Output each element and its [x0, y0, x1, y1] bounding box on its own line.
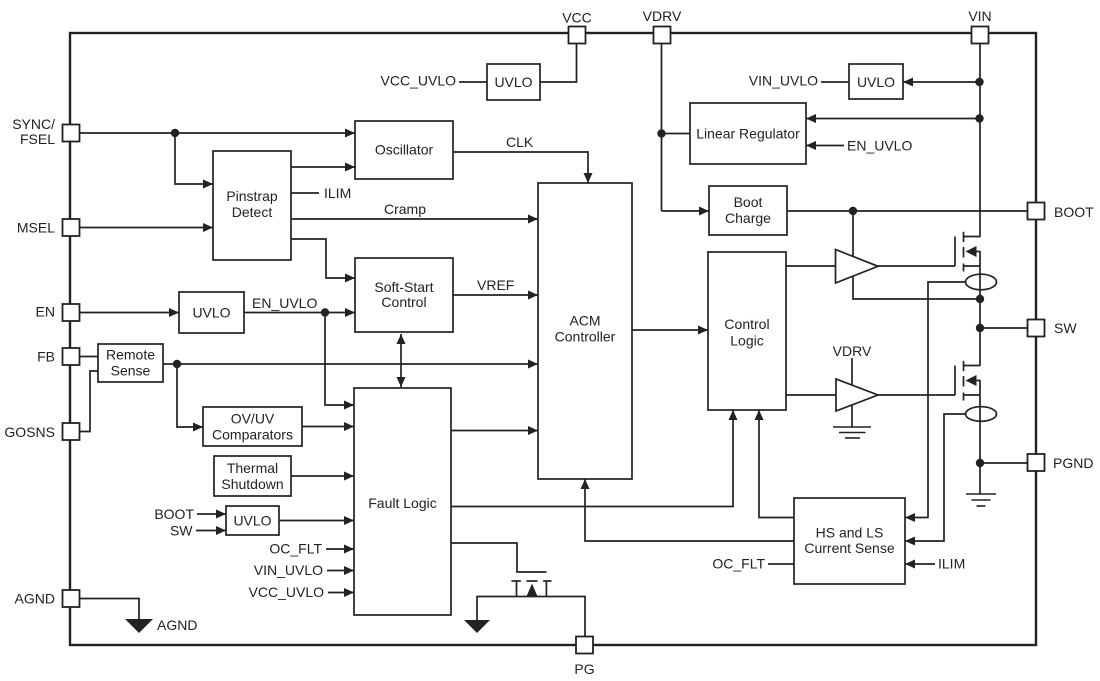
svg-text:Soft-Start: Soft-Start — [374, 279, 433, 295]
transistor Q2 source stub — [964, 394, 981, 396]
wire EN to UVLO — [80, 312, 179, 314]
pin PGND — [1028, 454, 1045, 471]
svg-text:PG: PG — [574, 661, 594, 677]
svg-text:UVLO: UVLO — [233, 513, 271, 529]
wire ILIM stub from Pinstrap Detect — [291, 192, 319, 194]
wire PG FET source rail — [477, 597, 585, 637]
wire UVLO to Fault Logic — [279, 520, 354, 522]
svg-text:Pinstrap: Pinstrap — [226, 188, 278, 204]
svg-text:VDRV: VDRV — [833, 343, 872, 359]
node PGND junction — [976, 459, 984, 467]
block Thermal Shutdown — [214, 456, 291, 496]
wire Control Logic to low-side driver — [786, 394, 836, 396]
transistor Q1 high-side FET gate bar — [954, 237, 956, 267]
svg-text:Cramp: Cramp — [384, 201, 426, 217]
block Boot Charge — [709, 186, 787, 235]
transistor Q3 PG pull-down channel segments — [511, 580, 521, 582]
transistor Q1 channel segments — [963, 232, 965, 242]
wire HS and LS Current Sense to ACM Controller bottom — [585, 479, 794, 541]
svg-text:UVLO: UVLO — [192, 305, 230, 321]
transistor Q1 source stub — [964, 265, 981, 267]
svg-text:OV/UV: OV/UV — [231, 411, 275, 427]
svg-text:HS and LS: HS and LS — [816, 525, 884, 541]
svg-text:VIN_UVLO: VIN_UVLO — [749, 73, 818, 89]
current sensor HS (ellipse) — [966, 274, 997, 290]
svg-text:BOOT: BOOT — [1054, 204, 1094, 220]
svg-text:VCC_UVLO: VCC_UVLO — [249, 584, 325, 600]
wire Pinstrap Detect to Oscillator — [291, 166, 355, 168]
wire low-side driver to FET gate — [878, 394, 955, 396]
wire VDRV pin down — [661, 44, 663, 212]
wire FB to Remote Sense — [80, 356, 98, 358]
wire SYNC/FSEL to Oscillator — [80, 132, 355, 134]
svg-text:ACM: ACM — [569, 313, 600, 329]
block Remote Sense — [98, 344, 163, 382]
pin GOSNS — [63, 423, 80, 440]
wire EN_UVLO from UVLO to Soft-Start Control — [244, 312, 355, 314]
block Oscillator — [355, 121, 453, 179]
wire AGND pin to ground — [80, 599, 139, 620]
transistor Q1 drain stub — [964, 236, 981, 238]
block Fault Logic — [354, 388, 451, 615]
transistor Q2 drain stub — [964, 365, 981, 367]
ground PGND (3-line) — [966, 493, 996, 495]
svg-text:Shutdown: Shutdown — [221, 476, 283, 492]
svg-text:SYNC/: SYNC/ — [12, 116, 55, 132]
gate driver U1 (high-side buffer) — [836, 250, 879, 284]
wire VCC_UVLO into Fault Logic — [328, 592, 354, 594]
block UVLO (EN) — [179, 292, 244, 333]
wire OC_FLT into HS and LS Current Sense — [768, 563, 794, 565]
wire bidirectional Soft-Start / Fault Logic — [400, 334, 402, 360]
wire Pinstrap Detect to Soft-Start Control — [291, 239, 355, 278]
svg-text:Thermal: Thermal — [227, 460, 278, 476]
svg-text:VIN: VIN — [968, 8, 991, 24]
svg-text:OC_FLT: OC_FLT — [712, 556, 765, 572]
svg-text:Remote: Remote — [106, 347, 155, 363]
block ACM Controller — [538, 183, 632, 479]
block OV/UV Comparators — [203, 407, 302, 446]
wire VDRV to Boot Charge — [662, 210, 710, 212]
svg-text:Boot: Boot — [734, 194, 763, 210]
svg-text:Linear Regulator: Linear Regulator — [696, 126, 800, 142]
svg-text:VREF: VREF — [477, 277, 514, 293]
pin MSEL — [63, 219, 80, 236]
node BOOT junction — [849, 207, 857, 215]
svg-text:Comparators: Comparators — [212, 427, 293, 443]
svg-text:Logic: Logic — [730, 333, 763, 349]
wire SW node to SW pin — [980, 327, 1027, 329]
svg-text:AGND: AGND — [15, 591, 55, 607]
wire GOSNS to Remote Sense — [80, 371, 98, 432]
ground low-side driver (3-line) — [833, 426, 871, 428]
wire Thermal Shutdown to Fault Logic — [291, 475, 354, 477]
svg-text:EN_UVLO: EN_UVLO — [847, 138, 912, 154]
node EN_UVLO junction — [321, 308, 329, 316]
ground AGND symbol — [125, 619, 153, 633]
block UVLO (VIN) — [849, 64, 903, 99]
wire VCC pin to UVLO — [540, 44, 577, 83]
pin EN — [63, 304, 80, 321]
svg-text:SW: SW — [1054, 320, 1077, 336]
wire OV/UV Comparators to Fault Logic — [302, 426, 354, 428]
svg-text:OC_FLT: OC_FLT — [269, 541, 322, 557]
wire VIN_UVLO into Fault Logic — [327, 570, 354, 572]
wire SW into UVLO — [196, 530, 226, 532]
wire CLK from Oscillator to ACM Controller — [453, 152, 588, 183]
svg-text:FB: FB — [37, 349, 55, 365]
chip boundary — [70, 33, 1036, 645]
svg-text:UVLO: UVLO — [494, 74, 532, 90]
svg-text:VIN_UVLO: VIN_UVLO — [254, 562, 323, 578]
wire low-side driver ground stub — [851, 404, 853, 427]
block Control Logic — [708, 252, 786, 410]
transistor Q3 drain tick — [545, 581, 547, 597]
svg-text:Controller: Controller — [555, 329, 616, 345]
node SW/BOOT junction — [976, 295, 984, 303]
wire Fault Logic to PG pull-down gate — [451, 543, 547, 572]
svg-text:Charge: Charge — [725, 210, 771, 226]
svg-text:EN_UVLO: EN_UVLO — [252, 295, 317, 311]
wire HS current sense tap — [905, 282, 966, 518]
svg-text:FSEL: FSEL — [20, 131, 55, 147]
wire VDRV to Linear Regulator — [662, 133, 691, 135]
svg-text:VCC: VCC — [562, 10, 592, 26]
svg-text:UVLO: UVLO — [857, 74, 895, 90]
wire BOOT into UVLO — [197, 513, 226, 515]
wire SYNC branch down to Pinstrap Detect — [175, 133, 213, 184]
wire Remote Sense to ACM Controller — [163, 363, 538, 365]
block Pinstrap Detect — [213, 151, 291, 260]
svg-text:ILIM: ILIM — [324, 185, 351, 201]
svg-text:Detect: Detect — [232, 204, 273, 220]
wire VIN to Linear Regulator — [806, 118, 980, 120]
svg-text:Oscillator: Oscillator — [375, 142, 434, 158]
svg-text:ILIM: ILIM — [938, 556, 965, 572]
transistor Q1 body arrow — [977, 251, 981, 253]
pin FB — [63, 348, 80, 365]
wire PGND node to PGND pin — [980, 462, 1027, 464]
wire VREF from Soft-Start Control to ACM Controller — [453, 294, 538, 296]
transistor Q2 channel segments — [963, 361, 965, 371]
svg-text:MSEL: MSEL — [17, 220, 55, 236]
wire ILIM into HS and LS Current Sense — [905, 563, 935, 565]
wire ACM Controller to Control Logic — [632, 329, 708, 331]
transistor Q2 low-side FET gate bar — [954, 366, 956, 396]
wire VIN pin down to high-side FET drain — [979, 44, 981, 237]
pin BOOT — [1028, 203, 1045, 220]
wire Control Logic to high-side driver — [786, 265, 836, 267]
transistor Q2 body arrow — [977, 380, 981, 382]
wire Boot Charge to BOOT pin — [787, 210, 1027, 212]
wire MSEL to Pinstrap Detect — [80, 227, 213, 229]
svg-text:GOSNS: GOSNS — [4, 424, 55, 440]
wire Cramp from Pinstrap Detect to ACM Controller — [291, 218, 538, 220]
wire FB branch down to OV/UV Comparators — [177, 364, 203, 427]
block UVLO (BOOT/SW) — [226, 506, 279, 535]
pin VIN — [972, 27, 989, 44]
transistor Q3 body arrow — [527, 584, 538, 597]
wire OC_FLT into Fault Logic — [326, 548, 354, 550]
wire Fault Logic to ACM Controller — [451, 430, 538, 432]
svg-text:Fault Logic: Fault Logic — [368, 495, 436, 511]
ground PG FET source symbol — [464, 620, 490, 633]
svg-text:Control: Control — [724, 316, 769, 332]
node VIN/LinReg junction — [975, 114, 983, 122]
wire VCC_UVLO label to UVLO — [459, 81, 487, 83]
wire Fault Logic to Control Logic bottom — [451, 410, 733, 507]
wire VDRV stub above low-side driver — [851, 358, 853, 385]
pin SYNC/FSEL — [63, 125, 80, 142]
current sensor LS (ellipse) — [966, 407, 997, 422]
node FB junction — [173, 360, 181, 368]
svg-text:AGND: AGND — [157, 617, 197, 633]
node VDRV junction — [657, 129, 665, 137]
transistor Q3 source tick — [516, 581, 518, 597]
gate driver U2 (low-side buffer) — [836, 379, 878, 411]
wire VIN_UVLO label to UVLO — [821, 81, 849, 83]
pin AGND — [63, 590, 80, 607]
svg-text:Control: Control — [381, 294, 426, 310]
wire EN_UVLO branch down to Fault Logic — [325, 313, 354, 406]
svg-text:BOOT: BOOT — [154, 506, 194, 522]
svg-text:Current Sense: Current Sense — [804, 540, 894, 556]
pin SW — [1028, 320, 1045, 337]
wire low-side FET source to power ground — [979, 381, 981, 495]
node VIN/UVLO junction — [975, 78, 983, 86]
pin PG — [576, 637, 593, 654]
block HS and LS Current Sense — [794, 498, 905, 584]
wire EN_UVLO to Linear Regulator — [806, 145, 844, 147]
svg-text:Sense: Sense — [111, 363, 151, 379]
wire VIN to UVLO right side — [903, 81, 980, 83]
node SW junction — [976, 324, 984, 332]
wire BOOT branch down to SW node — [853, 211, 980, 299]
svg-text:VCC_UVLO: VCC_UVLO — [381, 73, 457, 89]
pin VCC — [569, 27, 586, 44]
wire LS current sense tap — [905, 414, 966, 541]
wire SW node vertical — [979, 252, 981, 366]
svg-text:SW: SW — [170, 523, 193, 539]
wire HS and LS Current Sense to Control Logic bottom — [759, 410, 794, 518]
svg-text:EN: EN — [36, 304, 55, 320]
svg-text:VDRV: VDRV — [643, 8, 682, 24]
wire high-side driver to FET gate — [878, 265, 955, 267]
svg-text:CLK: CLK — [506, 134, 534, 150]
block Soft-Start Control — [355, 258, 453, 332]
node SYNC junction — [171, 129, 179, 137]
pin VDRV — [654, 27, 671, 44]
block UVLO (VCC) — [487, 64, 540, 100]
block Linear Regulator — [690, 103, 806, 164]
svg-text:PGND: PGND — [1053, 455, 1093, 471]
